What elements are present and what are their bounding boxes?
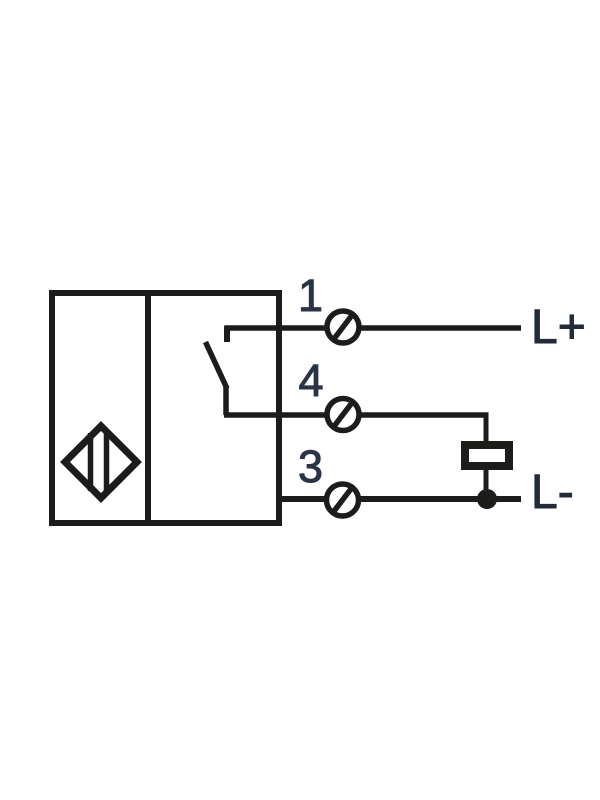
svg-text:4: 4 <box>298 355 323 406</box>
terminal 3 (screw terminal) <box>327 484 359 516</box>
wire: switch contact to terminal 1 and L+ <box>225 325 522 331</box>
switch K1 riser wire <box>223 386 229 415</box>
wire: switch to terminal 4 and load <box>224 412 489 418</box>
switch K1 blade (NO contact, open) <box>206 342 228 389</box>
load RL (resistor box) <box>465 445 509 466</box>
terminal 1 (screw terminal) <box>327 311 359 343</box>
sensor S1 body divider <box>145 290 151 523</box>
svg-text:L-: L- <box>531 466 574 519</box>
junction node on L- rail <box>477 489 497 509</box>
sensor symbol left bar <box>88 433 94 491</box>
sensor S1 body outline <box>52 293 279 523</box>
svg-text:1: 1 <box>298 270 323 321</box>
sensor symbol right bar <box>104 433 110 491</box>
wire: terminal 3 to L- rail <box>277 496 521 502</box>
svg-text:3: 3 <box>298 441 323 492</box>
switch K1 fixed contact stub <box>224 326 230 342</box>
inductive proximity sensing symbol (diamond) <box>65 426 137 498</box>
wire: drop from terminal 4 wire to load <box>484 413 489 444</box>
svg-text:L+: L+ <box>531 301 586 354</box>
terminal 4 (screw terminal) <box>327 399 359 431</box>
wire: load to L- rail <box>484 468 489 500</box>
